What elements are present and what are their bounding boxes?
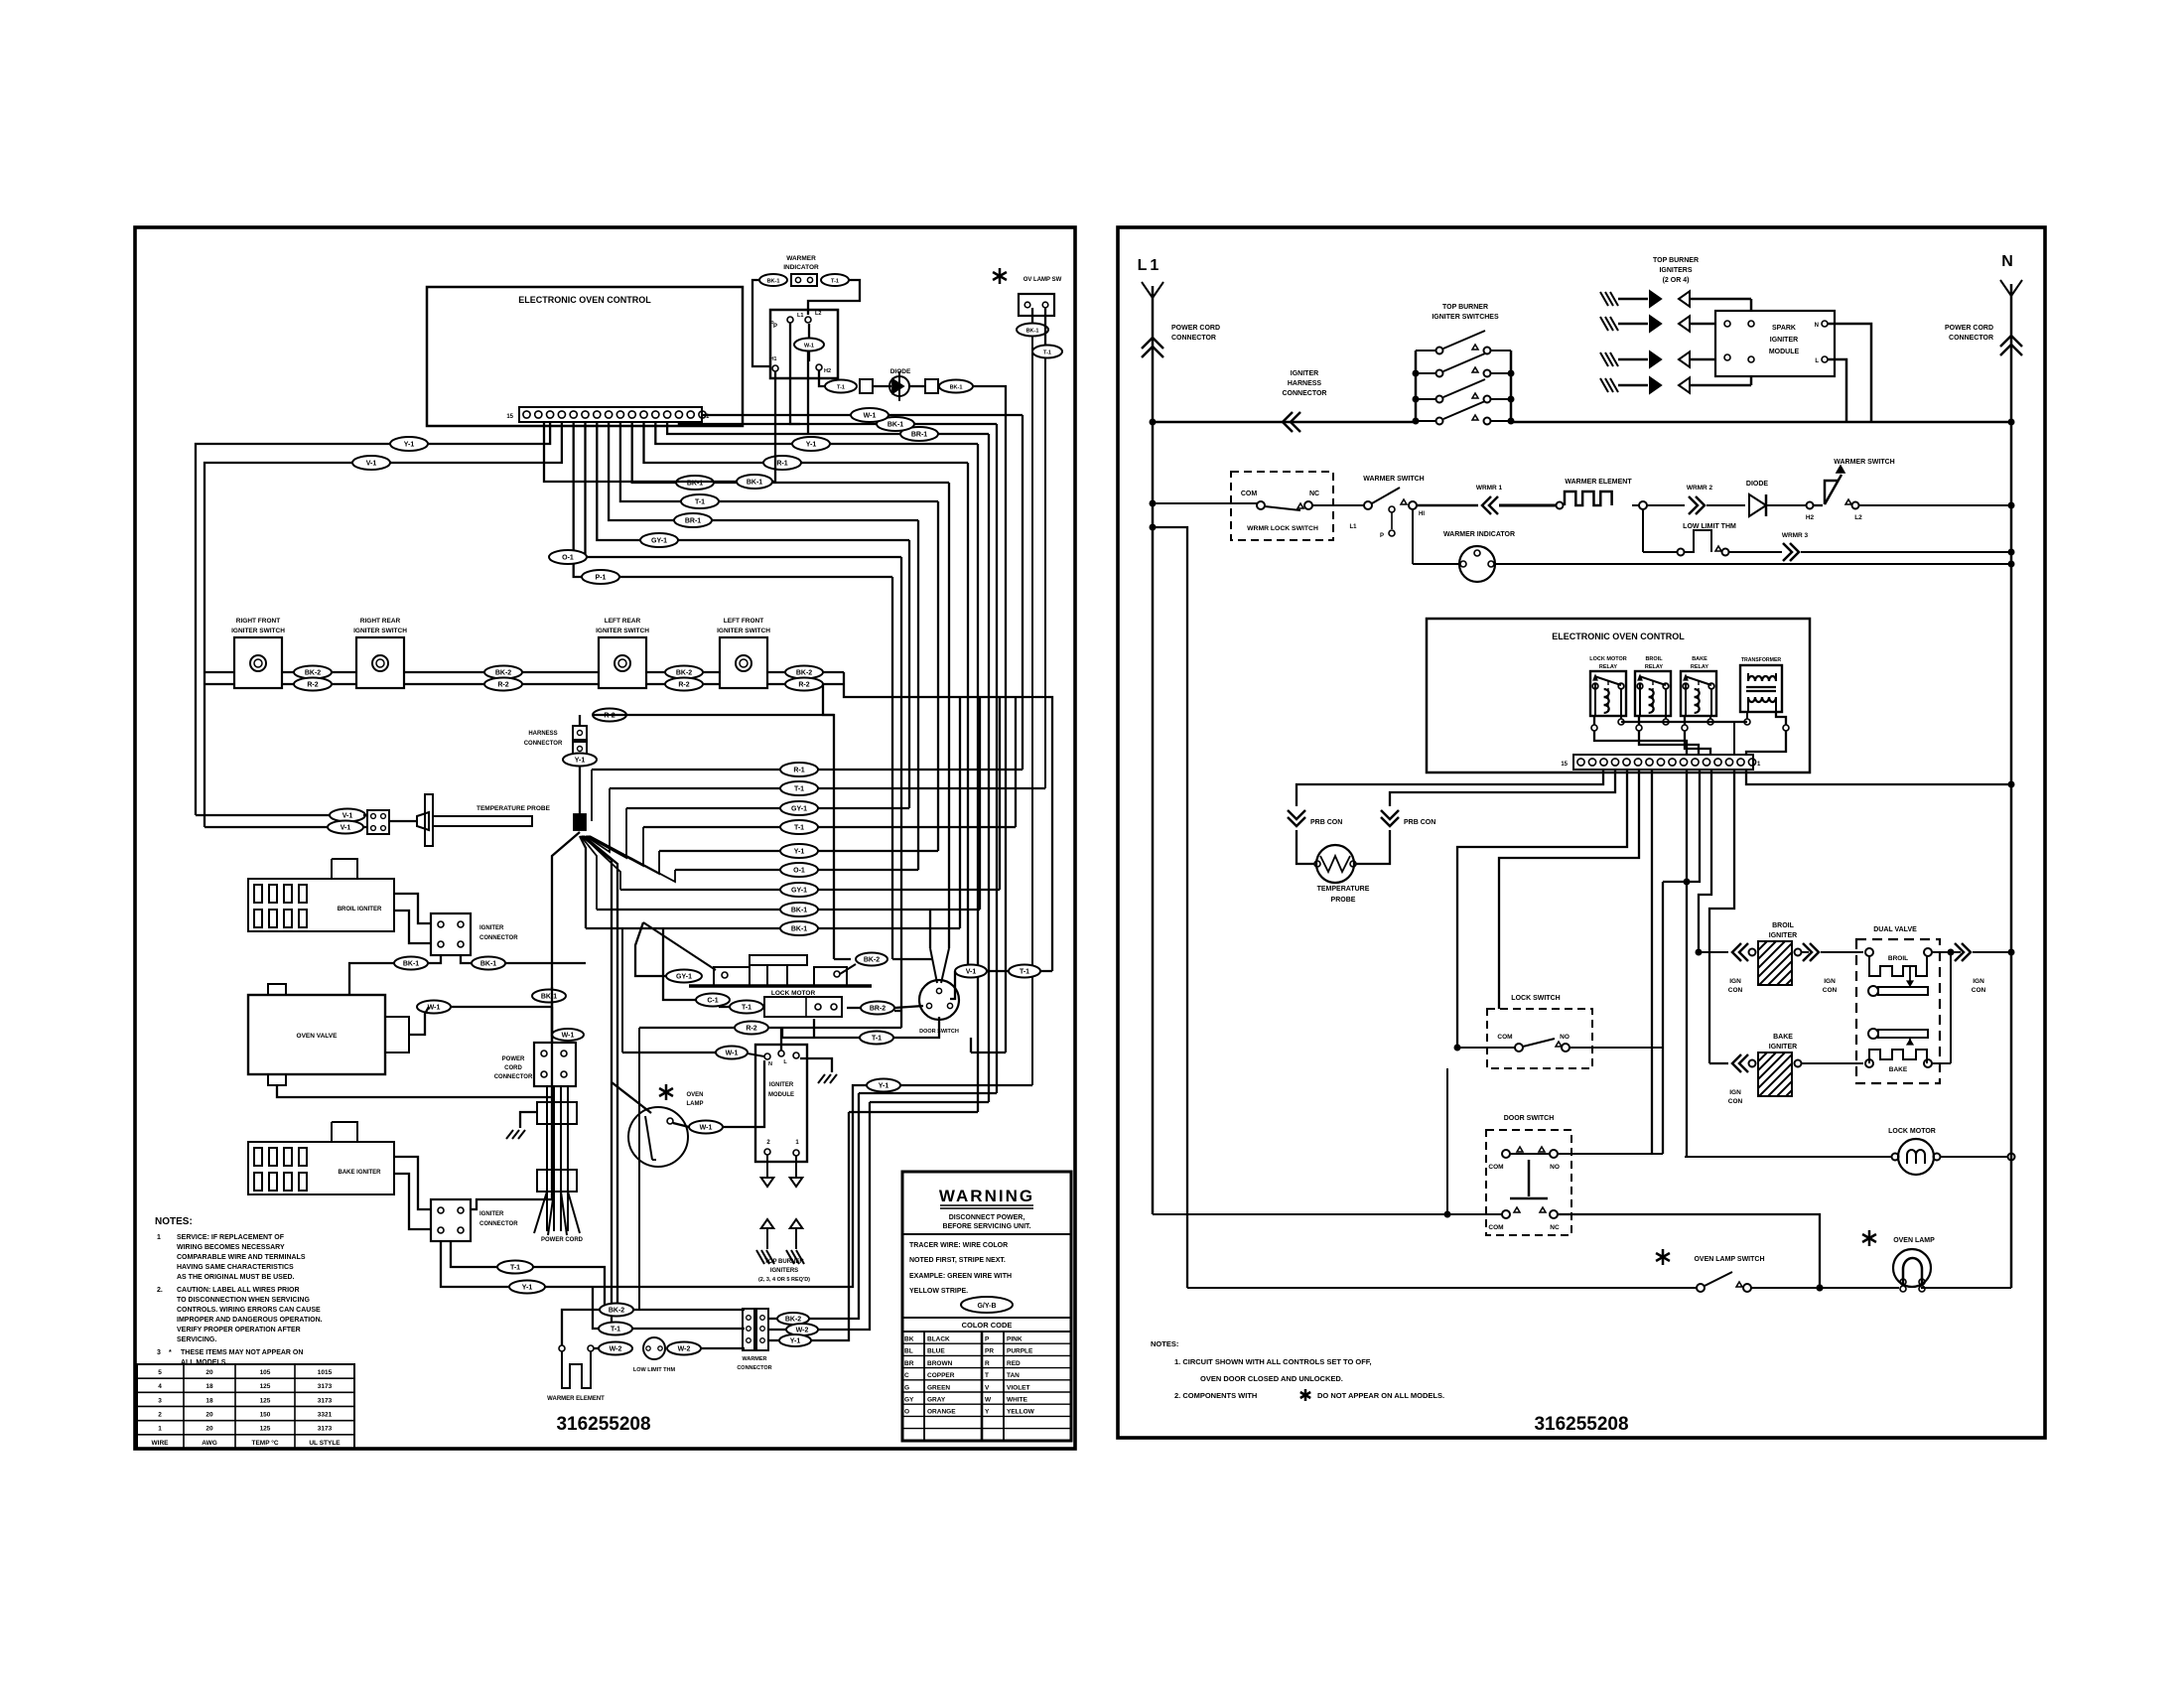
svg-text:15: 15 xyxy=(506,414,513,420)
svg-text:R-2: R-2 xyxy=(678,682,689,689)
oval W-2 xyxy=(599,1342,632,1355)
wire T-1 run xyxy=(451,1241,605,1310)
svg-text:WIRE: WIRE xyxy=(152,1440,170,1447)
wire xyxy=(1699,770,1711,952)
svg-text:WRMR 1: WRMR 1 xyxy=(1476,485,1503,491)
svg-text:N: N xyxy=(1815,323,1819,329)
svg-text:WARMER INDICATOR: WARMER INDICATOR xyxy=(1443,531,1515,538)
igniter switch right rear xyxy=(353,618,407,688)
svg-text:IGN: IGN xyxy=(1729,978,1741,985)
wire W-1 xyxy=(702,414,1023,416)
wire bottom xyxy=(1187,1287,1697,1289)
node N label xyxy=(2001,253,2013,270)
svg-text:R-2: R-2 xyxy=(746,1026,756,1033)
svg-text:CAUTION: LABEL ALL WIRES PRI: CAUTION: LABEL ALL WIRES PRIOR xyxy=(177,1287,300,1294)
harness connector xyxy=(573,726,587,756)
wire xyxy=(1651,770,1653,1154)
warmer switch 2 label xyxy=(1834,459,1894,466)
wire xyxy=(1802,951,1863,953)
svg-text:NC: NC xyxy=(1309,491,1319,497)
L1 rail xyxy=(1142,282,1163,1214)
oval BK-1 xyxy=(472,957,505,970)
wire node riser xyxy=(587,808,626,858)
wire ladder Y-1 xyxy=(659,850,938,852)
svg-text:V-1: V-1 xyxy=(342,813,353,820)
svg-text:N: N xyxy=(2001,253,2013,270)
svg-text:T-1: T-1 xyxy=(510,1265,520,1272)
oval W-1 xyxy=(794,339,824,351)
svg-text:R-2: R-2 xyxy=(497,682,508,689)
svg-text:OVEN VALVE: OVEN VALVE xyxy=(297,1033,339,1040)
wire Y-1 left xyxy=(196,422,550,815)
svg-text:W-2: W-2 xyxy=(678,1346,691,1353)
svg-text:TEMP °C: TEMP °C xyxy=(251,1439,278,1447)
svg-text:DOOR SWITCH: DOOR SWITCH xyxy=(919,1029,959,1035)
lock motor right xyxy=(1888,1128,1940,1175)
ign con right xyxy=(1955,943,1986,994)
svg-text:W-2: W-2 xyxy=(796,1328,809,1334)
wire xyxy=(1457,770,1627,1046)
oval O-1 xyxy=(780,863,818,877)
wire xyxy=(428,955,441,963)
oval BK-1 xyxy=(780,903,818,916)
svg-text:1: 1 xyxy=(157,1234,161,1241)
svg-text:T-1: T-1 xyxy=(611,1327,620,1333)
diode D1 xyxy=(889,368,911,401)
wire xyxy=(909,385,925,387)
svg-text:BAKE: BAKE xyxy=(1692,656,1707,662)
wire xyxy=(1499,770,1639,1009)
warmer connector xyxy=(737,1309,771,1371)
oval T-1 xyxy=(860,1032,893,1045)
power cord connector xyxy=(534,1043,576,1086)
wire BR-1 xyxy=(667,422,989,434)
oven lamp switch box xyxy=(1019,294,1054,316)
wire H1 down xyxy=(772,371,775,482)
oval BR-1 xyxy=(900,427,938,441)
wire xyxy=(719,1006,764,1008)
oval BK-2 xyxy=(665,666,703,679)
svg-text:Y: Y xyxy=(985,1409,990,1416)
wire BK-1 xyxy=(632,422,949,483)
svg-text:Y-1: Y-1 xyxy=(806,442,817,449)
wire xyxy=(1662,1048,1664,1154)
oval T-1 xyxy=(780,820,818,834)
svg-text:L2: L2 xyxy=(815,311,821,317)
igniter switch left front xyxy=(717,618,770,688)
wire diag bk2 xyxy=(840,964,856,974)
wire xyxy=(349,963,394,995)
oval BK-1 xyxy=(676,476,714,490)
wire xyxy=(894,1010,901,1012)
wire spark L xyxy=(1828,359,1846,422)
wire xyxy=(552,832,580,1199)
svg-text:IGNITER SWITCH: IGNITER SWITCH xyxy=(596,628,649,634)
low limit thm xyxy=(1678,523,1783,556)
svg-text:PINK: PINK xyxy=(1007,1336,1023,1343)
oval W-1 xyxy=(716,1047,748,1059)
oval Y-1 xyxy=(780,844,818,858)
svg-text:L1: L1 xyxy=(1349,524,1357,530)
svg-text:125: 125 xyxy=(260,1383,271,1390)
svg-text:OVEN DOOR CLOSED AND UNLOCKED.: OVEN DOOR CLOSED AND UNLOCKED. xyxy=(1200,1374,1343,1383)
oval BK-1 xyxy=(877,417,914,431)
electronic oven control box xyxy=(427,287,743,426)
svg-text:CONNECTOR: CONNECTOR xyxy=(479,935,518,941)
bake igniter xyxy=(248,1122,394,1194)
svg-text:RELAY: RELAY xyxy=(1691,664,1708,670)
svg-text:HARNESS: HARNESS xyxy=(1288,380,1322,387)
wire xyxy=(768,1093,859,1319)
igniter module xyxy=(755,1045,807,1162)
svg-text:18: 18 xyxy=(205,1383,213,1390)
power cord connector N xyxy=(1945,325,2022,355)
svg-text:T: T xyxy=(985,1372,989,1379)
asterisk xyxy=(993,268,1007,284)
wire xyxy=(873,385,891,387)
igniter switch left rear xyxy=(596,618,649,688)
notes text xyxy=(155,1216,323,1366)
wire R-2 xyxy=(767,683,844,685)
wire xyxy=(1746,770,2015,788)
oval BK-1 xyxy=(759,274,787,286)
wire node riser xyxy=(583,836,620,890)
oval BK-1 xyxy=(532,990,566,1003)
wire xyxy=(544,422,737,482)
svg-text:P: P xyxy=(1380,533,1384,539)
oval Y-1 xyxy=(390,437,428,451)
svg-text:TO DISCONNECTION WHEN SERVICIN: TO DISCONNECTION WHEN SERVICING xyxy=(177,1297,310,1304)
wire xyxy=(409,1007,429,1035)
svg-text:YELLOW: YELLOW xyxy=(1007,1409,1035,1416)
wire xyxy=(892,958,933,960)
svg-text:BR: BR xyxy=(904,1360,914,1367)
svg-text:316255208: 316255208 xyxy=(556,1414,650,1435)
svg-text:COPPER: COPPER xyxy=(927,1372,955,1379)
igniter connector xyxy=(431,913,518,955)
svg-text:BK-2: BK-2 xyxy=(796,670,812,677)
EOC terminal strip xyxy=(506,407,710,422)
wire xyxy=(663,928,696,1000)
wire vertical xyxy=(977,444,979,1112)
svg-text:AS THE ORIGINAL MUST BE USED.: AS THE ORIGINAL MUST BE USED. xyxy=(177,1274,295,1281)
broil relay xyxy=(1635,656,1671,716)
wire Y-1 xyxy=(655,422,978,444)
svg-text:L: L xyxy=(1815,358,1819,364)
svg-text:WRMR LOCK SWITCH: WRMR LOCK SWITCH xyxy=(1247,525,1318,532)
svg-text:IGNITER: IGNITER xyxy=(479,1211,504,1217)
wire xyxy=(1417,504,1478,507)
wire xyxy=(1685,1154,2015,1161)
svg-text:1. CIRCUIT SHOWN WITH ALL CO: 1. CIRCUIT SHOWN WITH ALL CONTROLS SET T… xyxy=(1174,1357,1372,1366)
svg-text:2: 2 xyxy=(158,1411,162,1418)
oval T-1 xyxy=(1009,965,1040,978)
oven lamp switch xyxy=(1656,1249,1764,1292)
probe connector xyxy=(367,810,389,834)
svg-text:V-1: V-1 xyxy=(966,969,977,976)
svg-text:20: 20 xyxy=(205,1426,213,1433)
warmer switch label xyxy=(1363,476,1424,483)
svg-text:BLUE: BLUE xyxy=(927,1348,945,1355)
wire warmer row xyxy=(1150,500,1232,507)
wire ladder T-1 xyxy=(610,787,1045,789)
oval W-1 xyxy=(851,408,888,422)
svg-text:BROIL: BROIL xyxy=(1772,922,1795,929)
warmer thermal switch xyxy=(1814,466,1859,509)
svg-text:P: P xyxy=(985,1336,990,1343)
svg-text:R-1: R-1 xyxy=(793,768,804,774)
svg-text:125: 125 xyxy=(260,1397,271,1404)
wire vertical xyxy=(967,463,969,965)
PRB CON connector xyxy=(1288,810,1342,826)
oval P-1 xyxy=(582,570,619,584)
svg-text:L2: L2 xyxy=(1854,514,1862,521)
svg-text:DOOR SWITCH: DOOR SWITCH xyxy=(1504,1115,1555,1122)
svg-text:WARMER: WARMER xyxy=(742,1356,766,1362)
wire xyxy=(1801,549,2015,556)
wire xyxy=(451,1006,552,1008)
wire xyxy=(819,370,825,386)
svg-text:IGNITER SWITCH: IGNITER SWITCH xyxy=(717,628,770,634)
power cord bundle xyxy=(537,1086,577,1231)
oval GY-1 xyxy=(780,883,818,897)
part number xyxy=(556,1414,650,1435)
oval BK-2 xyxy=(484,666,522,679)
svg-text:L1: L1 xyxy=(797,313,803,319)
svg-text:BK-2: BK-2 xyxy=(495,670,511,677)
svg-text:CON: CON xyxy=(1972,987,1986,994)
wire xyxy=(580,715,834,753)
svg-text:YELLOW STRIPE.: YELLOW STRIPE. xyxy=(909,1288,968,1295)
oval W-2 xyxy=(667,1342,701,1355)
wire xyxy=(612,1082,651,1113)
svg-text:BK-1: BK-1 xyxy=(747,480,762,487)
oval BK-1 xyxy=(1017,324,1048,337)
svg-text:NO: NO xyxy=(1560,1034,1570,1041)
svg-text:LOW LIMIT THM: LOW LIMIT THM xyxy=(1683,523,1736,530)
wire diag xyxy=(643,922,716,970)
wire relay lead xyxy=(1682,716,1710,755)
svg-text:BK-1: BK-1 xyxy=(950,385,963,391)
svg-text:L1: L1 xyxy=(1138,257,1162,274)
igniter connector 2 xyxy=(431,1199,518,1241)
wire xyxy=(1709,1062,1728,1064)
svg-text:TOP BURNER: TOP BURNER xyxy=(1653,257,1699,264)
wire xyxy=(1412,508,1414,564)
svg-text:Y-1: Y-1 xyxy=(404,442,415,449)
wire v-1 line xyxy=(950,971,1052,999)
oval R-2 xyxy=(735,1022,768,1035)
svg-text:LOCK MOTOR: LOCK MOTOR xyxy=(1589,656,1627,662)
oval T-1 xyxy=(825,380,857,393)
svg-text:BEFORE SERVICING UNIT.: BEFORE SERVICING UNIT. xyxy=(943,1223,1031,1230)
svg-text:Y-1: Y-1 xyxy=(522,1285,533,1292)
wire xyxy=(1356,830,1390,864)
svg-text:R-2: R-2 xyxy=(798,682,809,689)
svg-text:BAKE: BAKE xyxy=(1889,1066,1908,1073)
wire xyxy=(701,1347,745,1349)
wire bend r2 xyxy=(823,684,834,959)
wire xyxy=(1686,784,1688,1157)
oval BK-2 xyxy=(856,953,887,966)
svg-text:COM: COM xyxy=(1488,1164,1503,1171)
top bus wire xyxy=(1150,419,2015,426)
svg-text:V-1: V-1 xyxy=(341,825,351,832)
svg-text:VERIFY PROPER OPERATION AFTER: VERIFY PROPER OPERATION AFTER xyxy=(177,1327,301,1333)
left page border xyxy=(135,227,1075,1449)
svg-text:20: 20 xyxy=(205,1411,213,1418)
svg-text:NOTED FIRST, STRIPE NEXT.: NOTED FIRST, STRIPE NEXT. xyxy=(909,1257,1006,1264)
svg-text:125: 125 xyxy=(260,1426,271,1433)
svg-text:SERVICE: IF REPLACEMENT OF: SERVICE: IF REPLACEMENT OF xyxy=(177,1234,285,1241)
wire xyxy=(1802,1062,1863,1064)
svg-text:CONNECTOR: CONNECTOR xyxy=(494,1074,533,1080)
N rail xyxy=(1921,280,2022,1288)
wire R-1 xyxy=(644,422,969,463)
wire transformer lead xyxy=(1746,712,1789,755)
svg-text:BAKE: BAKE xyxy=(1773,1034,1793,1041)
wire xyxy=(1932,949,2015,956)
svg-text:CONNECTOR: CONNECTOR xyxy=(1949,335,1993,342)
svg-text:SERVICING.: SERVICING. xyxy=(177,1336,216,1343)
svg-text:CORD: CORD xyxy=(504,1065,522,1071)
svg-text:EXAMPLE: GREEN WIRE WITH: EXAMPLE: GREEN WIRE WITH xyxy=(909,1273,1012,1280)
wire bend after LF xyxy=(844,672,1052,971)
electronic oven control box right xyxy=(1427,619,1810,772)
power cord pins xyxy=(534,1192,580,1235)
oven valve xyxy=(248,984,409,1085)
wire xyxy=(277,1085,552,1097)
svg-text:4: 4 xyxy=(158,1383,162,1390)
svg-text:150: 150 xyxy=(260,1411,271,1418)
svg-text:Y-1: Y-1 xyxy=(879,1083,889,1090)
bake relay xyxy=(1681,656,1716,716)
svg-text:DUAL VALVE: DUAL VALVE xyxy=(1873,926,1917,933)
warmer relay box xyxy=(770,310,838,378)
svg-text:T-1: T-1 xyxy=(1043,351,1051,356)
svg-text:3321: 3321 xyxy=(318,1411,333,1418)
svg-text:W-2: W-2 xyxy=(610,1346,622,1353)
L2 label xyxy=(1854,514,1862,521)
wire L1 bottom xyxy=(1153,1068,1502,1218)
oval V-1 xyxy=(955,965,987,978)
oval BR-2 xyxy=(861,1002,894,1015)
wire O-1 xyxy=(586,422,902,557)
svg-text:BK-1: BK-1 xyxy=(480,961,496,968)
svg-text:CONNECTOR: CONNECTOR xyxy=(1171,335,1216,342)
oval R-1 xyxy=(763,456,801,470)
warmer element xyxy=(547,1345,605,1402)
wire xyxy=(1647,504,1685,506)
svg-text:3: 3 xyxy=(157,1349,161,1356)
svg-text:NC: NC xyxy=(1550,1224,1560,1231)
svg-text:POWER CORD: POWER CORD xyxy=(1945,325,1993,332)
WRMR 1 connector xyxy=(1476,485,1503,514)
PRB CON connector xyxy=(1381,810,1435,826)
svg-text:W: W xyxy=(985,1397,992,1404)
svg-text:POWER CORD: POWER CORD xyxy=(541,1237,584,1243)
wire relay lead xyxy=(1591,716,1687,755)
oval Y-1 xyxy=(867,1079,900,1092)
svg-text:IGNITERS: IGNITERS xyxy=(1659,267,1692,274)
wire GY-1 xyxy=(597,422,909,540)
igniter harness connector xyxy=(1283,370,1327,432)
wire ladder O-1 xyxy=(675,869,918,871)
wire BR-1 xyxy=(609,422,918,520)
oval T-1 xyxy=(780,781,818,795)
wire xyxy=(1709,770,1734,1063)
svg-text:ELECTRONIC OVEN CONTROL: ELECTRONIC OVEN CONTROL xyxy=(518,295,651,305)
svg-text:T-1: T-1 xyxy=(794,786,804,793)
wire xyxy=(1751,1285,1899,1292)
svg-text:BROWN: BROWN xyxy=(927,1360,953,1367)
wire xyxy=(834,958,851,960)
oval BK-1 xyxy=(939,380,973,393)
svg-text:PRB CON: PRB CON xyxy=(1404,819,1435,826)
oval R-2 xyxy=(785,678,823,691)
wire R-2 xyxy=(282,683,356,685)
svg-text:BROIL: BROIL xyxy=(1645,656,1663,662)
wire P-1 xyxy=(574,422,892,577)
wire xyxy=(584,836,617,1309)
wire xyxy=(870,1101,989,1103)
svg-text:CON: CON xyxy=(1728,987,1743,994)
svg-text:MODULE: MODULE xyxy=(768,1092,794,1098)
wire xyxy=(1558,1153,1663,1155)
ground xyxy=(506,1112,537,1139)
svg-text:PROBE: PROBE xyxy=(1331,897,1356,904)
oval Y-1 xyxy=(792,437,830,451)
wire xyxy=(551,987,553,1043)
wire ladder GY-1 xyxy=(626,807,909,809)
svg-text:IGNITER: IGNITER xyxy=(1769,932,1797,939)
svg-text:BR-1: BR-1 xyxy=(911,432,927,439)
wire vertical xyxy=(996,424,998,1093)
wire vertical xyxy=(959,697,961,928)
wire xyxy=(768,1102,870,1330)
wire xyxy=(1663,770,1700,1048)
svg-text:OVEN LAMP SWITCH: OVEN LAMP SWITCH xyxy=(1694,1256,1764,1263)
svg-text:R-1: R-1 xyxy=(776,461,787,468)
wire R-2 xyxy=(646,683,720,685)
svg-text:IGN: IGN xyxy=(1729,1089,1741,1096)
svg-text:CONNECTOR: CONNECTOR xyxy=(524,741,563,747)
door switch right xyxy=(1486,1115,1571,1235)
oval BK-1 xyxy=(394,957,428,970)
svg-text:IMPROPER AND DANGEROUS OPERATI: IMPROPER AND DANGEROUS OPERATION. xyxy=(177,1317,323,1324)
svg-text:RELAY: RELAY xyxy=(1645,664,1663,670)
svg-text:SPARK: SPARK xyxy=(1772,325,1796,332)
oval R-2 xyxy=(294,678,332,691)
svg-text:316255208: 316255208 xyxy=(1534,1414,1628,1435)
switch bank xyxy=(1413,331,1515,425)
wire xyxy=(1297,830,1314,864)
wire vertical xyxy=(1015,697,1017,827)
svg-text:OVEN LAMP: OVEN LAMP xyxy=(1893,1237,1935,1244)
wire node riser xyxy=(586,788,610,852)
svg-text:T-1: T-1 xyxy=(794,825,804,832)
svg-text:ELECTRONIC OVEN CONTROL: ELECTRONIC OVEN CONTROL xyxy=(1552,631,1685,641)
svg-text:3173: 3173 xyxy=(318,1397,333,1404)
svg-text:3173: 3173 xyxy=(318,1383,333,1390)
svg-text:LAMP: LAMP xyxy=(687,1101,704,1107)
wire xyxy=(1766,504,1806,506)
igniter switch right front xyxy=(231,618,285,688)
temperature probe right xyxy=(1314,845,1370,904)
WRMR 3 connector xyxy=(1782,532,1809,561)
oval BK-2 xyxy=(785,666,823,679)
svg-text:GY: GY xyxy=(904,1397,914,1404)
